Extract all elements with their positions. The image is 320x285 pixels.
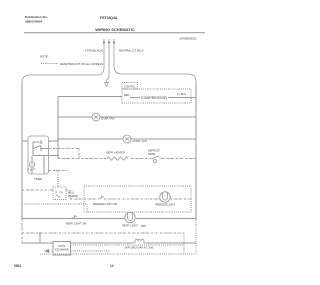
- svg-text:FREEZER LIGHT: FREEZER LIGHT: [155, 204, 175, 207]
- right rail (neutral bus): [195, 82, 197, 220]
- svg-text:(AIR CIRCU FAN KIT, SW): (AIR CIRCU FAN KIT, SW): [125, 247, 154, 250]
- svg-text:LT. BLU: LT. BLU: [177, 93, 186, 96]
- title rule: [24, 32, 205, 34]
- timer contacts: [33, 140, 48, 156]
- wire: ground (middle) drop: [107, 39, 110, 83]
- svg-text:ICE MAKER: ICE MAKER: [55, 248, 69, 251]
- svg-text:WIRING SCHEMATIC: WIRING SCHEMATIC: [95, 27, 135, 32]
- svg-text:DENOTES NOT ON ALL MODELS: DENOTES NOT ON ALL MODELS: [60, 62, 103, 66]
- mullion heater dashed box: [53, 187, 66, 200]
- wire: drop x40: [39, 233, 41, 243]
- freezer light lamp: [160, 192, 170, 202]
- power cord terminal dots: [103, 41, 105, 43]
- wire: neutral (lt. blu) drop to right rail: [114, 39, 196, 82]
- svg-text:4 PIN (BLACK): 4 PIN (BLACK): [85, 49, 103, 53]
- svg-text:COND. FAN: COND. FAN: [133, 139, 147, 143]
- compressor control dashed box: [122, 83, 138, 90]
- wire: timer stubs to bus: [22, 97, 58, 142]
- wire: timer lower stub row: [49, 170, 69, 172]
- svg-text:AUTO: AUTO: [58, 245, 65, 248]
- evap fan motor: [92, 113, 100, 121]
- wire: condenser fan row: [58, 138, 196, 140]
- wire: evaporator fan row: [58, 116, 196, 118]
- defrost timer box: [28, 136, 49, 174]
- refr light door switch: [72, 215, 77, 219]
- svg-text:REFR. LIGHT: REFR. LIGHT: [122, 225, 138, 228]
- refr light lamp: [125, 212, 135, 222]
- dashed vertical x184: [183, 233, 185, 254]
- svg-text:(240389301): (240389301): [179, 37, 196, 41]
- svg-text:FRT18Q4A: FRT18Q4A: [100, 16, 118, 20]
- wire: bottom row y243: [22, 242, 196, 244]
- wire: line (black) power drop to left rail: [22, 39, 104, 83]
- wire: refrigerator light row y219: [22, 218, 196, 220]
- wire: defrost heater row: [58, 158, 196, 160]
- left rail (black bus): [21, 83, 23, 219]
- wire: mull row from left rail: [22, 190, 84, 199]
- timer motor: [29, 162, 34, 167]
- dashed option box (freezer light circuit): [84, 186, 191, 212]
- svg-text:Publication No.: Publication No.: [25, 15, 48, 19]
- inner bus x58 from compressor row down: [57, 97, 59, 159]
- svg-text:FREEZER LIGHT SW: FREEZER LIGHT SW: [93, 203, 118, 206]
- svg-text:COMPRESSOR: COMPRESSOR: [141, 96, 167, 100]
- defrost heater resistor: [107, 157, 128, 161]
- defrost terminator switch: [150, 156, 162, 159]
- svg-text:5995279954: 5995279954: [25, 20, 42, 24]
- wire: light feed row y204: [22, 204, 87, 212]
- cond fan motor: [123, 135, 131, 143]
- svg-text:TIMER: TIMER: [34, 177, 42, 181]
- svg-text:9902: 9902: [14, 264, 21, 268]
- svg-text:DEFR. HEATER: DEFR. HEATER: [106, 151, 125, 155]
- air circ fan component: [133, 239, 146, 244]
- svg-text:14: 14: [110, 264, 114, 268]
- wire: compressor feed row y97: [58, 97, 196, 98]
- svg-text:NEUTRAL (LT. BLU): NEUTRAL (LT. BLU): [119, 49, 143, 53]
- wire: row y233 dash-dot: [22, 232, 184, 234]
- ground arrow symbol: [105, 83, 109, 87]
- svg-text:NOTE:: NOTE:: [40, 55, 49, 59]
- wire: freezer light row: [84, 198, 191, 200]
- svg-text:TERM.: TERM.: [148, 153, 156, 156]
- dashed stubs from ice maker: [71, 245, 185, 251]
- auto ice maker box: [53, 242, 71, 256]
- mull switch inside: [56, 191, 62, 198]
- water valve arrow: [44, 249, 49, 253]
- svg-text:REFR. LIGHT SW: REFR. LIGHT SW: [66, 223, 87, 226]
- svg-text:EVAP. FAN: EVAP. FAN: [102, 117, 115, 121]
- svg-text:CONTROL: CONTROL: [124, 87, 136, 89]
- freezer light door switch: [99, 196, 104, 200]
- svg-text:WHT: WHT: [141, 225, 147, 228]
- svg-text:RED: RED: [124, 94, 129, 97]
- svg-text:HEATER: HEATER: [68, 195, 78, 198]
- dashed bottom row: [40, 253, 196, 255]
- compressor dashed box: [122, 89, 191, 103]
